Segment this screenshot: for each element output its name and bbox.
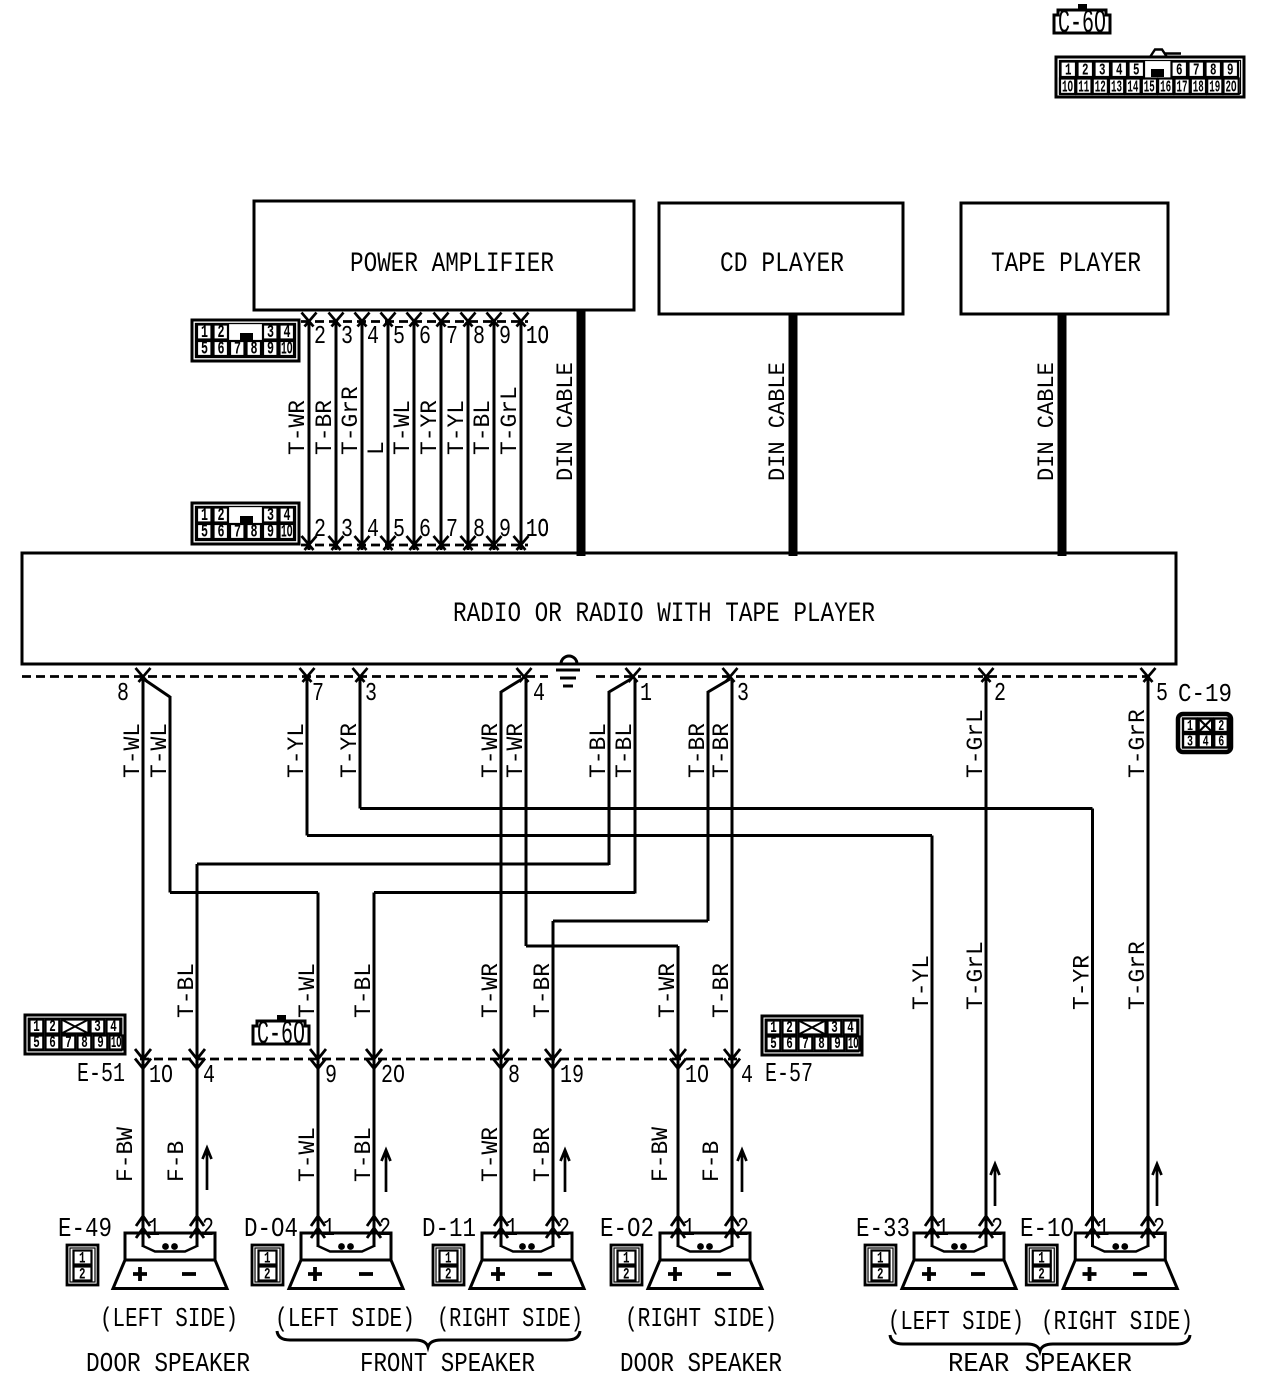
svg-text:T-BR: T-BR — [709, 963, 736, 1018]
svg-text:F-BW: F-BW — [113, 1126, 140, 1182]
label T-YR on wire x=360 (upper) — [337, 723, 364, 778]
speaker E-33 2-pin connector icon — [865, 1245, 896, 1285]
connector pin 20 arrow at bottom interface x=374 — [366, 1049, 405, 1090]
label T-BR on wire x=553 (lower) — [530, 1127, 557, 1182]
svg-text:5: 5 — [393, 321, 405, 351]
svg-text:T-YL: T-YL — [909, 955, 936, 1010]
svg-text:6: 6 — [218, 523, 225, 543]
svg-text:1: 1 — [148, 1213, 160, 1243]
svg-text:(LEFT SIDE): (LEFT SIDE) — [275, 1305, 415, 1335]
svg-text:E-1O: E-1O — [1020, 1215, 1074, 1245]
svg-text:T-WL: T-WL — [295, 1127, 322, 1182]
brace under front speakers — [277, 1331, 580, 1347]
label E-57 — [765, 1060, 813, 1090]
wire T-BR pin 3 left vertical — [707, 691, 710, 921]
wire pin 3 from power amplifier (T-BR) — [329, 313, 354, 551]
svg-text:T-BR: T-BR — [312, 400, 339, 455]
speaker E-49 name label — [58, 1215, 112, 1245]
svg-text:1: 1 — [323, 1213, 335, 1243]
label T-WL on wire x=170 (upper) — [147, 723, 174, 778]
wire T-WR horizontal run to E-57 pin 10 — [526, 945, 678, 948]
svg-text:T-YR: T-YR — [417, 400, 444, 455]
svg-text:9: 9 — [267, 523, 274, 543]
svg-text:T-GrR: T-GrR — [338, 386, 365, 455]
svg-text:8: 8 — [473, 514, 485, 544]
speaker D-04 icon — [289, 1233, 403, 1289]
svg-text:3: 3 — [737, 678, 749, 708]
svg-text:2: 2 — [737, 1213, 749, 1243]
svg-text:3: 3 — [341, 321, 353, 351]
wire T-BR horizontal run to C-60 pin 19 — [553, 920, 708, 923]
polarity up-arrow at x=565 — [561, 1150, 570, 1192]
speaker E-49 icon — [113, 1233, 227, 1289]
label T-WR on wire x=501 (mid) — [478, 963, 505, 1018]
wire T-WR pin 4 branch diagonal — [501, 679, 522, 692]
svg-text:2: 2 — [79, 1266, 86, 1284]
wire T-WL horizontal run to C-60 pin 9 — [170, 891, 318, 894]
label T-WL on wire x=318 (lower) — [295, 1127, 322, 1182]
label L (amplifier wire 5) — [364, 441, 391, 455]
label T-YR on wire x=1092.5 (mid) — [1070, 955, 1097, 1010]
svg-text:19: 19 — [560, 1060, 584, 1090]
svg-text:9: 9 — [267, 340, 274, 360]
svg-text:17: 17 — [1177, 79, 1188, 98]
label T-BR on wire x=708 (upper) — [685, 723, 712, 778]
polarity up-arrow at x=995 — [991, 1164, 1000, 1206]
svg-text:2: 2 — [558, 1213, 570, 1243]
caption (RIGHT SIDE) rear speaker — [1041, 1308, 1193, 1338]
polarity up-arrow at x=386 — [382, 1150, 391, 1192]
dashed connector line below power amplifier (top) — [301, 320, 528, 323]
label F-B on wire x=197 (lower) — [164, 1141, 191, 1182]
svg-text:8: 8 — [251, 523, 258, 543]
svg-text:5: 5 — [393, 514, 405, 544]
wire pin 10 from power amplifier (T-GrL) — [514, 313, 550, 551]
svg-text:F-BW: F-BW — [648, 1126, 675, 1182]
wire pin 5 from power amplifier (L) — [381, 313, 406, 551]
connector pin 4 arrow at bottom interface x=197 — [189, 1049, 215, 1090]
speaker E-33 icon — [902, 1233, 1016, 1289]
wire T-BL vertical to E-51 pin 4 / speaker E-49 pin 2 — [196, 864, 199, 1247]
svg-text:T-BR: T-BR — [530, 1127, 557, 1182]
wire pin 7 from power amplifier (T-YR) — [434, 313, 459, 551]
pin 10 labels (amplifier) — [526, 321, 549, 544]
label T-WR on wire x=526 (upper) — [503, 723, 530, 778]
wire pin 8 from power amplifier (T-YL) — [461, 313, 486, 551]
svg-text:T-BL: T-BL — [174, 963, 201, 1018]
wire T-YR vertical to speaker E-10 pin 1 — [1091, 809, 1094, 1248]
label T-BL on wire x=635 (upper) — [612, 723, 639, 778]
svg-text:7: 7 — [312, 678, 324, 708]
svg-text:7: 7 — [65, 1034, 72, 1053]
speaker D-11 name label — [422, 1215, 476, 1245]
label T-BL on wire x=374 (mid) — [351, 963, 378, 1018]
wire T-GrL pin 2 vertical to speaker E-33 pin 2 — [985, 679, 988, 1247]
wire T-WL pin 8 left (to E-51 pin 10 / speaker E-49 pin 1) — [142, 679, 145, 1247]
wire T-WL pin 8 right vertical — [169, 696, 172, 893]
svg-text:T-BL: T-BL — [351, 1127, 378, 1182]
svg-text:POWER AMPLIFIER: POWER AMPLIFIER — [350, 249, 554, 280]
svg-text:7: 7 — [234, 523, 241, 543]
svg-text:T-WL: T-WL — [120, 723, 147, 778]
svg-text:2: 2 — [264, 1266, 271, 1284]
svg-text:4: 4 — [367, 514, 379, 544]
wire pin 6 from power amplifier (T-WL) — [407, 313, 432, 551]
svg-text:1: 1 — [683, 1213, 695, 1243]
svg-text:3: 3 — [1187, 733, 1193, 750]
radio output pin 3 arrow at x=730 — [723, 668, 750, 708]
svg-text:8: 8 — [81, 1034, 88, 1053]
radio output pin 8 arrow at x=143 — [117, 668, 151, 708]
svg-text:2: 2 — [623, 1266, 630, 1284]
svg-text:15: 15 — [1144, 79, 1155, 98]
svg-text:1O: 1O — [281, 340, 293, 360]
label T-YL on wire x=932 (mid) — [909, 955, 936, 1010]
svg-text:T-YL: T-YL — [444, 400, 471, 455]
label T-BL (amplifier wire 9) — [470, 400, 497, 455]
wire T-BL pin 1 right vertical — [634, 679, 637, 894]
DIN cable from tape player — [1058, 314, 1067, 556]
wire T-GrR pin 5 vertical to speaker E-10 pin 2 — [1147, 679, 1150, 1247]
svg-text:9: 9 — [325, 1060, 337, 1090]
label T-BR (amplifier wire 3) — [312, 400, 339, 455]
svg-text:4: 4 — [533, 678, 545, 708]
label T-BR on wire x=732 (mid) — [709, 963, 736, 1018]
label T-WL on wire x=143 (upper) — [120, 723, 147, 778]
label DIN CABLE (power amplifier) — [553, 362, 580, 481]
wire T-BR pin 3 branch diagonal — [708, 679, 730, 692]
label E-51 — [77, 1060, 125, 1090]
caption FRONT SPEAKER — [360, 1350, 535, 1378]
svg-text:2: 2 — [991, 1213, 1003, 1243]
tape player box — [961, 203, 1168, 314]
wire T-BL pin 1 left vertical — [608, 691, 611, 865]
svg-text:1: 1 — [1098, 1213, 1110, 1243]
svg-text:12: 12 — [1095, 79, 1106, 98]
label T-WL on wire x=318 (mid) — [295, 963, 322, 1018]
wire T-WR vertical to C-60 pin 8 / speaker D-11 pin 1 — [500, 691, 503, 1247]
connector pinout E-57 — [762, 1016, 862, 1055]
radio output pin 7 arrow at x=307 — [300, 668, 325, 708]
svg-text:1O: 1O — [149, 1060, 173, 1090]
svg-text:19: 19 — [1209, 79, 1220, 98]
svg-text:9: 9 — [834, 1035, 841, 1054]
connector C-60 label middle — [253, 1015, 309, 1053]
caption DOOR SPEAKER right — [620, 1350, 782, 1378]
speaker E-49 pin arrows and numbers — [136, 1213, 214, 1243]
svg-text:T-BL: T-BL — [612, 723, 639, 778]
speaker D-04 name label — [244, 1215, 298, 1245]
svg-text:T-WL: T-WL — [295, 963, 322, 1018]
wire T-WL pin 8 branch diagonal — [145, 680, 170, 697]
svg-text:1O: 1O — [685, 1060, 709, 1090]
speaker E-33 name label — [856, 1215, 910, 1245]
connector pin 9 arrow at bottom interface x=318 — [310, 1049, 337, 1090]
wire T-WR pin 4 right vertical — [525, 679, 528, 946]
svg-text:E-49: E-49 — [58, 1215, 112, 1245]
caption (RIGHT SIDE) front speaker — [437, 1305, 583, 1335]
svg-text:8: 8 — [818, 1035, 825, 1054]
label T-YL (amplifier wire 8) — [444, 400, 471, 455]
svg-text:2: 2 — [994, 678, 1006, 708]
CD player box — [659, 203, 903, 314]
svg-text:F-B: F-B — [164, 1141, 191, 1182]
label T-GrR (amplifier wire 4) — [338, 386, 365, 455]
speaker E-02 2-pin connector icon — [611, 1245, 642, 1285]
label F-BW on wire x=143 (lower) — [113, 1126, 140, 1182]
wire T-WL vertical to C-60 pin 9 / speaker D-04 pin 1 — [317, 893, 320, 1248]
wire T-YR pin 3 vertical — [359, 679, 362, 809]
svg-text:6: 6 — [786, 1035, 793, 1054]
svg-text:5: 5 — [201, 340, 208, 360]
svg-text:1: 1 — [640, 678, 652, 708]
svg-text:T-WR: T-WR — [478, 1127, 505, 1182]
svg-text:C-19: C-19 — [1178, 679, 1232, 709]
svg-text:9: 9 — [499, 321, 511, 351]
radio output pin 5 arrow at x=1148 — [1141, 668, 1169, 708]
svg-text:T-GrR: T-GrR — [1125, 941, 1152, 1010]
label T-BL on wire x=374 (lower) — [351, 1127, 378, 1182]
dashed connector line below radio (C-19 interface) — [22, 675, 1150, 678]
svg-text:T-GrL: T-GrL — [963, 709, 990, 778]
svg-text:6: 6 — [1218, 733, 1224, 750]
svg-text:T-YR: T-YR — [337, 723, 364, 778]
connector pin 10 arrow at bottom interface x=143 — [135, 1049, 173, 1090]
svg-text:F-B: F-B — [699, 1141, 726, 1182]
svg-text:(RIGHT SIDE): (RIGHT SIDE) — [1041, 1308, 1193, 1338]
svg-text:1: 1 — [937, 1213, 949, 1243]
radio output pin 2 arrow at x=986 — [979, 668, 1007, 708]
svg-text:6: 6 — [419, 514, 431, 544]
label T-BR on wire x=732 (upper) — [709, 723, 736, 778]
label DIN CABLE (CD player) — [765, 362, 792, 481]
svg-text:2: 2 — [1218, 718, 1224, 735]
wire T-WR vertical to E-57 pin 10 / speaker E-02 pin 1 — [677, 946, 680, 1247]
speaker E-02 icon — [648, 1233, 762, 1289]
speaker D-11 pin arrows and numbers — [494, 1213, 570, 1243]
svg-text:T-YR: T-YR — [1070, 955, 1097, 1010]
svg-text:6: 6 — [218, 340, 225, 360]
caption (RIGHT SIDE) door speaker right — [625, 1305, 777, 1335]
svg-text:RADIO OR RADIO WITH TAPE PLAYE: RADIO OR RADIO WITH TAPE PLAYER — [453, 599, 875, 630]
wire T-BL vertical to C-60 pin 20 / speaker D-04 pin 2 — [373, 893, 376, 1248]
svg-text:DOOR SPEAKER: DOOR SPEAKER — [620, 1350, 782, 1378]
polarity up-arrow at x=1157 — [1153, 1164, 1162, 1206]
connector pinout E-51 — [25, 1015, 125, 1054]
svg-text:T-WL: T-WL — [147, 723, 174, 778]
label T-BR on wire x=553 (mid) — [530, 963, 557, 1018]
label T-WR on wire x=678 (mid) — [655, 963, 682, 1018]
label T-WR (amplifier wire 2) — [285, 400, 312, 455]
dashed connector line E-51 / C-60 / E-57 — [140, 1058, 742, 1061]
polarity up-arrow at x=207 — [203, 1148, 212, 1190]
svg-text:D-11: D-11 — [422, 1215, 476, 1245]
svg-text:1: 1 — [506, 1213, 518, 1243]
svg-text:14: 14 — [1127, 79, 1138, 98]
svg-text:18: 18 — [1193, 79, 1204, 98]
speaker E-10 icon — [1063, 1233, 1177, 1289]
caption (LEFT SIDE) rear speaker — [888, 1308, 1024, 1338]
svg-text:3: 3 — [365, 678, 377, 708]
svg-text:T-WR: T-WR — [503, 723, 530, 778]
wire pin 9 from power amplifier (T-BL) — [487, 313, 512, 551]
wire T-BR pin 3 right vertical to E-57 pin 4 / speaker E-02 pin 2 — [731, 679, 734, 1247]
svg-text:T-YL: T-YL — [284, 723, 311, 778]
svg-text:T-BR: T-BR — [709, 723, 736, 778]
svg-text:2: 2 — [314, 321, 326, 351]
label T-GrL (amplifier wire 10) — [497, 386, 524, 455]
radio box — [22, 553, 1176, 664]
svg-text:4: 4 — [741, 1060, 753, 1090]
svg-text:E-O2: E-O2 — [600, 1215, 654, 1245]
svg-text:8: 8 — [117, 678, 129, 708]
svg-text:DIN CABLE: DIN CABLE — [553, 362, 580, 481]
svg-text:2: 2 — [379, 1213, 391, 1243]
svg-text:2: 2 — [202, 1213, 214, 1243]
caption (LEFT SIDE) door speaker left — [100, 1305, 238, 1335]
svg-text:1O: 1O — [1062, 79, 1073, 98]
svg-text:T-BR: T-BR — [685, 723, 712, 778]
svg-text:(LEFT SIDE): (LEFT SIDE) — [100, 1305, 238, 1335]
label F-B on wire x=732 (lower) — [699, 1141, 726, 1182]
wire T-BL pin 1 branch diagonal — [609, 679, 631, 692]
svg-text:(RIGHT SIDE): (RIGHT SIDE) — [437, 1305, 583, 1335]
svg-text:2: 2 — [877, 1266, 884, 1284]
svg-text:C-6O: C-6O — [257, 1016, 305, 1053]
label T-WL (amplifier wire 6) — [390, 400, 417, 455]
svg-text:7: 7 — [446, 321, 458, 351]
svg-text:13: 13 — [1111, 79, 1122, 98]
caption (LEFT SIDE) front speaker — [275, 1305, 415, 1335]
connector pin 19 arrow at bottom interface x=553 — [545, 1049, 584, 1090]
label T-YR (amplifier wire 7) — [417, 400, 444, 455]
svg-text:DOOR SPEAKER: DOOR SPEAKER — [86, 1350, 250, 1378]
label T-GrR on wire x=1148 (upper) — [1125, 709, 1152, 778]
DIN cable from CD player — [789, 314, 798, 556]
speaker E-02 pin arrows and numbers — [671, 1213, 749, 1243]
wire T-YL pin 7 vertical — [306, 679, 309, 836]
wire T-YL vertical to speaker E-33 pin 1 — [931, 836, 934, 1248]
svg-text:4: 4 — [1203, 733, 1209, 750]
svg-text:3: 3 — [341, 514, 353, 544]
speaker E-49 2-pin connector icon — [67, 1245, 98, 1285]
svg-text:8: 8 — [473, 321, 485, 351]
power amplifier box — [254, 201, 634, 310]
svg-text:11: 11 — [1078, 79, 1089, 98]
polarity up-arrow at x=742 — [738, 1150, 747, 1192]
svg-text:1O: 1O — [526, 514, 549, 544]
svg-text:1: 1 — [1187, 718, 1193, 735]
label T-BL on wire x=609 (upper) — [586, 723, 613, 778]
caption DOOR SPEAKER left — [86, 1350, 250, 1378]
svg-text:T-BL: T-BL — [586, 723, 613, 778]
svg-text:4: 4 — [367, 321, 379, 351]
svg-text:T-BR: T-BR — [530, 963, 557, 1018]
svg-text:T-WR: T-WR — [655, 963, 682, 1018]
svg-text:T-WR: T-WR — [478, 963, 505, 1018]
brace under rear speakers — [890, 1335, 1190, 1351]
caption REAR SPEAKER — [948, 1350, 1132, 1378]
svg-text:(LEFT SIDE): (LEFT SIDE) — [888, 1308, 1024, 1338]
speaker E-02 name label — [600, 1215, 654, 1245]
svg-text:2: 2 — [445, 1266, 452, 1284]
label T-GrL on wire x=986 (upper) — [963, 709, 990, 778]
svg-text:T-GrL: T-GrL — [497, 386, 524, 455]
svg-text:5: 5 — [770, 1035, 777, 1054]
speaker D-04 2-pin connector icon — [252, 1245, 283, 1285]
label T-YL on wire x=307 (upper) — [284, 723, 311, 778]
svg-text:TAPE PLAYER: TAPE PLAYER — [991, 249, 1141, 280]
speaker D-11 2-pin connector icon — [433, 1245, 464, 1285]
svg-text:16: 16 — [1160, 79, 1171, 98]
svg-text:6: 6 — [49, 1034, 56, 1053]
wire T-YL horizontal run to rear speaker left — [307, 834, 932, 837]
svg-text:DIN CABLE: DIN CABLE — [765, 362, 792, 481]
label T-BL on wire x=197 (mid) — [174, 963, 201, 1018]
svg-text:(RIGHT SIDE): (RIGHT SIDE) — [625, 1305, 777, 1335]
dashed connector line above radio (bottom of amp wires) — [301, 544, 528, 547]
connector pin 10 arrow at bottom interface x=678 — [670, 1049, 709, 1090]
svg-text:6: 6 — [419, 321, 431, 351]
label DIN CABLE (tape player) — [1034, 362, 1061, 481]
speaker E-10 name label — [1020, 1215, 1074, 1245]
speaker D-04 pin arrows and numbers — [311, 1213, 391, 1243]
svg-text:5: 5 — [201, 523, 208, 543]
svg-text:D-O4: D-O4 — [244, 1215, 298, 1245]
svg-text:T-GrR: T-GrR — [1125, 709, 1152, 778]
svg-text:E-51: E-51 — [77, 1060, 125, 1090]
svg-text:1O: 1O — [848, 1035, 859, 1054]
radio output pin 1 arrow at x=633 — [626, 668, 653, 708]
svg-text:FRONT SPEAKER: FRONT SPEAKER — [360, 1350, 535, 1378]
speaker E-10 2-pin connector icon — [1026, 1245, 1057, 1285]
chassis ground on radio — [548, 656, 592, 691]
svg-text:T-BL: T-BL — [351, 963, 378, 1018]
speaker E-10 pin arrows and numbers — [1086, 1213, 1166, 1243]
radio output pin 3 arrow at x=360 — [353, 668, 378, 708]
connector pin 4 arrow at bottom interface x=732 — [724, 1049, 753, 1090]
wire T-BL horizontal run (pin 1 to E-51 pin 4) — [197, 863, 609, 866]
svg-text:9: 9 — [97, 1034, 104, 1053]
wire T-BL horizontal run to C-60 pin 20 — [374, 891, 635, 894]
svg-text:L: L — [364, 441, 391, 455]
label T-WR on wire x=501 (lower) — [478, 1127, 505, 1182]
svg-text:E-57: E-57 — [765, 1060, 813, 1090]
svg-text:7: 7 — [446, 514, 458, 544]
connector C-19 pinout icon — [1178, 714, 1231, 752]
label T-GrR on wire x=1148 (mid) — [1125, 941, 1152, 1010]
svg-text:7: 7 — [234, 340, 241, 360]
label F-BW on wire x=678 (lower) — [648, 1126, 675, 1182]
label T-WR on wire x=501 (upper) — [478, 723, 505, 778]
svg-text:8: 8 — [251, 340, 258, 360]
connector pinout at amplifier bottom — [192, 503, 299, 544]
svg-text:1O: 1O — [526, 321, 549, 351]
connector C-60 label top right — [1054, 4, 1110, 42]
svg-text:2: 2 — [1038, 1266, 1045, 1284]
svg-text:T-GrL: T-GrL — [963, 941, 990, 1010]
svg-text:5: 5 — [33, 1034, 40, 1053]
connector pinout at amplifier top — [192, 320, 299, 361]
connector C-19 name label — [1178, 679, 1232, 709]
svg-text:1O: 1O — [281, 523, 293, 543]
connector pin 8 arrow at bottom interface x=501 — [493, 1049, 520, 1090]
svg-text:8: 8 — [508, 1060, 520, 1090]
svg-text:REAR SPEAKER: REAR SPEAKER — [948, 1350, 1132, 1378]
svg-text:2O: 2O — [381, 1060, 405, 1090]
svg-text:1O: 1O — [111, 1034, 122, 1053]
svg-text:2: 2 — [1153, 1213, 1165, 1243]
